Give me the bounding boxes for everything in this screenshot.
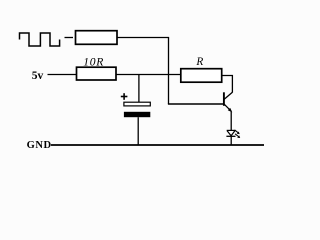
wire: 10R to resistor R (node B) [116, 74, 181, 76]
svg-text:R: R [195, 56, 203, 68]
ground rail line [51, 144, 264, 146]
LED D1 light arrows [235, 130, 241, 138]
wire: emitter to LED anode [230, 112, 232, 131]
value label 10R [83, 55, 104, 68]
transistor Q1 collector diagonal [224, 92, 232, 99]
transistor Q1 emitter diagonal with arrow [224, 104, 232, 112]
svg-text:GND: GND [27, 140, 52, 151]
capacitor C1 plus sign [121, 93, 128, 100]
wire: input resistor to node A [117, 37, 169, 39]
ground GND label [27, 140, 52, 151]
capacitor C1 top plate [124, 102, 150, 106]
wire: source output to input resistor [65, 37, 74, 39]
capacitor C1 negative lead [137, 117, 139, 145]
resistor R [181, 69, 222, 83]
svg-text:5v: 5v [32, 70, 44, 82]
wire: 5v to resistor 10R [48, 74, 77, 76]
wire: R to collector [222, 76, 233, 93]
node 5v label [32, 70, 44, 82]
transistor Q1 base bar [223, 92, 225, 106]
capacitor C1 positive lead [138, 75, 140, 103]
resistor R1 (input, unlabeled) [76, 31, 118, 45]
LED D1 [226, 130, 235, 136]
square wave source V1 [20, 33, 60, 46]
svg-text:10R: 10R [83, 55, 104, 68]
value label R [195, 56, 203, 68]
wire: LED cathode to ground [230, 136, 232, 145]
wire: horizontal to transistor base [168, 103, 224, 105]
capacitor C1 bottom plate [124, 112, 150, 117]
resistor 10R [77, 67, 117, 80]
wire: node A vertical down to base [168, 38, 170, 105]
